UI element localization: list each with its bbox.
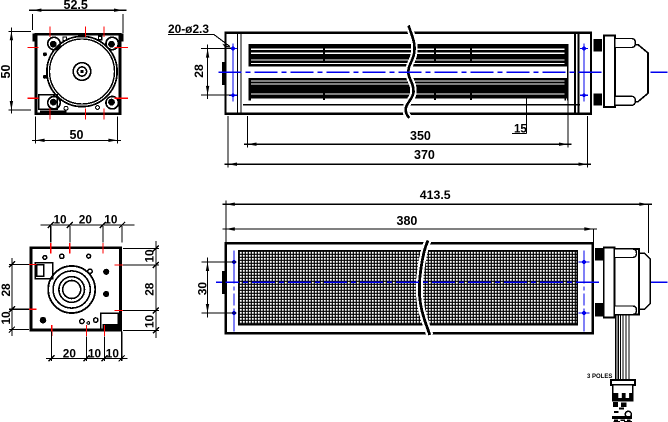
dimension 15 [512, 96, 527, 136]
connector detail d [625, 411, 631, 417]
view1 red tick left a [28, 47, 39, 49]
view3 blade right closure [565, 44, 568, 100]
svg-text:10: 10 [54, 212, 68, 226]
svg-text:28: 28 [192, 64, 206, 78]
view1 corner tab right [120, 34, 124, 42]
view2 bottom-right box [101, 313, 118, 330]
view1 terminal box [39, 95, 57, 110]
view2 red tick right a [115, 264, 127, 266]
dimension 28 left of view3 [192, 45, 231, 100]
view4 hole diamond left top [231, 259, 237, 265]
view2 hole b [60, 254, 64, 258]
view4 motor screw tab bottom [595, 303, 604, 317]
view4 mesh grille [239, 251, 578, 325]
view2 terminal box inner [37, 265, 44, 277]
view2 shaft polygon [63, 281, 81, 299]
view3 right flange inner wall [575, 34, 579, 113]
view2 red tick top a [50, 243, 52, 254]
view2 housing square [31, 248, 121, 330]
view1 red tick bottom c [103, 109, 105, 120]
svg-text:28: 28 [142, 282, 156, 296]
view3 motor screw tab top [593, 39, 602, 51]
view2 red tick left b [26, 308, 37, 310]
view4 motor end cap [639, 253, 650, 309]
view2 motor circle 2 [53, 271, 90, 308]
view2 bottom-right box bar [103, 324, 119, 330]
svg-text:15: 15 [514, 124, 527, 136]
dimension 30 left of view4 [195, 258, 236, 318]
view2 motor circle 3 [59, 277, 85, 303]
connector detail e [612, 416, 632, 419]
view1 lug bottom b [96, 106, 100, 110]
view3 motor can [615, 45, 648, 102]
view1 hub outer [73, 63, 91, 81]
connector detail f [614, 419, 631, 421]
view1 screw bottom-left [48, 97, 60, 109]
view4 motor screw tab top [595, 248, 604, 260]
view4 hole crosshair right top (blue) [579, 261, 590, 263]
view1 red tick bottom b [84, 109, 86, 120]
connector detail c [614, 409, 624, 413]
view3 motor screw tab bottom [593, 93, 602, 105]
view4 hole diamond left bottom [231, 310, 237, 316]
svg-text:20: 20 [79, 212, 93, 226]
connector detail a [613, 402, 618, 407]
view3 body rectangle [226, 33, 592, 114]
view2 motor circle 1 [48, 266, 95, 313]
view1 red tick right b [115, 97, 129, 99]
view3 hole diamond right top [581, 46, 586, 51]
svg-text:10: 10 [104, 212, 118, 226]
view4 hole diamond right bottom [581, 310, 587, 316]
view4 centerline left hole (blue) [233, 251, 235, 332]
svg-text:50: 50 [0, 65, 13, 79]
view2 red tick bottom a [51, 325, 53, 336]
view3 break line [406, 26, 415, 119]
view3 hole diamond left top [230, 46, 235, 51]
view2 rivet right a [103, 269, 109, 275]
svg-text:50: 50 [70, 128, 84, 142]
view4 body rectangle [226, 243, 593, 333]
view3 left edge boss [222, 62, 225, 85]
view4 hole diamond right top [581, 259, 587, 265]
view1 small lug top a [63, 37, 66, 40]
view4 lead wires [616, 315, 629, 381]
view3 motor bracket [604, 36, 615, 108]
connector detail g [614, 420, 621, 422]
connector detail b [621, 403, 626, 407]
view1 red tick top c [103, 27, 105, 38]
svg-text:20: 20 [63, 347, 77, 361]
view2 terminal box top-left [35, 263, 53, 279]
svg-text:20-ø2.3: 20-ø2.3 [168, 22, 209, 36]
svg-text:380: 380 [397, 214, 418, 228]
dimension 50 bottom [32, 117, 121, 144]
dimension 50 left [0, 28, 31, 114]
view2 hole bottom a [80, 319, 84, 323]
dimension chain 10 28 10 right of view2 [123, 241, 159, 338]
dimension 350 [244, 100, 572, 148]
svg-text:10: 10 [142, 314, 156, 328]
svg-text:52.5: 52.5 [64, 0, 88, 12]
view3 blade left closure [248, 44, 250, 100]
view1 scroll circle outer [47, 36, 117, 106]
view1 small lug top b [99, 36, 102, 39]
svg-text:413.5: 413.5 [420, 188, 451, 202]
dimension 413.5 [222, 188, 652, 253]
view2 hole a [43, 256, 47, 260]
view3 centerline horizontal (blue) [219, 71, 668, 73]
view3 centerline right hole (blue) [583, 44, 585, 102]
svg-text:10: 10 [106, 347, 120, 361]
view1 screw bottom-right [106, 97, 118, 109]
view2 red tick top c [102, 243, 104, 254]
connector body [613, 385, 633, 401]
view1 screw top-left [48, 37, 60, 49]
view4 centerline horizontal (blue) [216, 281, 668, 283]
view2 red tick top b [69, 243, 71, 254]
view3 motor tab bottom [615, 96, 635, 105]
view4 centerline right hole (blue) [583, 251, 585, 332]
view1 lug bottom a [64, 106, 68, 110]
view3 inner bottom wall [243, 104, 580, 106]
view4 hole crosshair right bottom (blue) [579, 312, 590, 314]
view3 hole diamond right bottom [581, 93, 586, 98]
view4 break line [419, 241, 429, 336]
view3 blade section tick c [470, 45, 472, 100]
svg-text:10: 10 [142, 249, 156, 263]
view2 red tick bottom b [85, 325, 87, 336]
view1 hub inner [77, 67, 86, 76]
view1 terminal bar [40, 110, 66, 114]
view2 hole bottom b [87, 322, 90, 325]
view1 housing square [36, 34, 120, 114]
view3 blade section tick b [434, 45, 436, 100]
view1 boss left a [43, 52, 47, 56]
view1 corner tab left [33, 34, 37, 42]
view3 hole diamond left bottom [230, 93, 235, 98]
view4 motor bracket [604, 248, 615, 318]
view2 red tick right b [115, 309, 127, 311]
view2 rivet bottom-left [40, 317, 47, 324]
view1 red tick bottom a [49, 109, 51, 120]
view4 left edge boss [222, 271, 226, 294]
view2 hole bottom c [94, 318, 98, 322]
connector cap [611, 380, 635, 385]
svg-text:28: 28 [0, 283, 13, 297]
view3 blade section tick a [323, 45, 325, 100]
dimension chain 10 20 10 top of view2 [41, 212, 135, 242]
view2 red tick left a [26, 263, 37, 265]
dimension 370 [225, 116, 592, 168]
view1 scroll circle inner [50, 39, 115, 104]
svg-text:10: 10 [88, 347, 102, 361]
dimension chain 28 10 left of view2 [0, 258, 29, 336]
view4 motor body [615, 249, 640, 315]
dimension 380 [222, 214, 597, 242]
view1 red tick left b [28, 97, 39, 99]
view2 hole c [87, 254, 91, 258]
view4 motor tab bottom [615, 306, 637, 315]
view2 red tick bottom c [103, 325, 105, 336]
view1 red tick top a [49, 27, 51, 38]
view3 blade slats top [249, 44, 568, 66]
svg-text:350: 350 [410, 129, 431, 143]
view3 left flange inner wall [238, 34, 242, 113]
connector pins [614, 393, 633, 400]
svg-text:30: 30 [195, 282, 209, 296]
dimension chain 20 10 10 bottom of view2 [46, 332, 128, 362]
svg-text:10: 10 [0, 311, 13, 325]
view4 motor tab top [615, 249, 637, 258]
view1 red tick right a [115, 47, 129, 49]
view3 motor tab top [615, 39, 635, 48]
view1 screw top-right [106, 37, 118, 49]
view2 rivet right b [103, 291, 109, 297]
view2 hole d [88, 269, 92, 273]
svg-text:3 POLES: 3 POLES [587, 374, 612, 380]
svg-text:370: 370 [414, 148, 435, 162]
view1 shaft dot [80, 70, 83, 73]
view3 centerline left hole (blue) [232, 44, 234, 102]
dimension 52.5 top [29, 0, 127, 33]
label 20-2.3 [168, 22, 232, 48]
view1 boss left b [43, 75, 47, 79]
view1 red tick top b [84, 27, 86, 38]
view3 blade slats bottom [249, 78, 568, 99]
